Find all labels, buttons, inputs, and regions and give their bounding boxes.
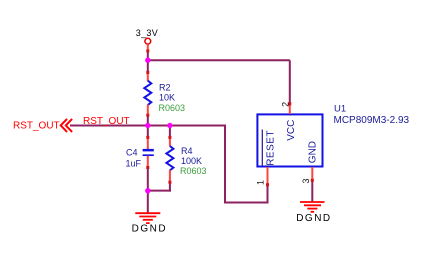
off-page connector RST_OUT (13, 119, 72, 132)
svg-text:DGND: DGND (296, 213, 331, 224)
ground symbol right DGND (300, 202, 325, 212)
resistor R2 (144, 71, 151, 117)
svg-text:3: 3 (301, 178, 311, 183)
svg-text:VCC: VCC (286, 120, 297, 141)
RESET overline (261, 130, 263, 166)
svg-text:C4: C4 (126, 148, 138, 158)
wire from power symbol down to R2 (147, 50, 149, 73)
node junction at ground (145, 188, 150, 193)
svg-text:R0603: R0603 (159, 103, 186, 113)
svg-text:DGND: DGND (132, 223, 167, 234)
op-amp U1 body (257, 114, 322, 166)
svg-text:U1: U1 (334, 104, 346, 115)
svg-text:R4: R4 (181, 146, 193, 156)
svg-text:GND: GND (308, 141, 319, 163)
wire RST_OUT horizontal (70, 125, 226, 127)
wire horizontal R4 bottom to junction (147, 190, 171, 192)
wire U1 pin 3 down to right DGND (311, 181, 313, 203)
wire vertical bend down at x=225 (224, 126, 226, 204)
wire vertical up to U1 pin 1 (267, 185, 269, 203)
svg-text:MCP809M3-2.93: MCP809M3-2.93 (334, 115, 410, 126)
svg-text:RST_OUT: RST_OUT (83, 116, 130, 127)
node junction at power rail (145, 58, 150, 63)
wire C4 bottom to ground junction (147, 167, 149, 191)
pin 3 stub (311, 167, 314, 182)
ground symbol left DGND (135, 213, 160, 223)
svg-text:R0603: R0603 (180, 166, 207, 176)
wire horizontal to U1 pin 1 (224, 202, 269, 204)
svg-text:1: 1 (255, 180, 265, 185)
wire junction to R4 top (169, 126, 171, 138)
svg-text:R2: R2 (159, 83, 171, 93)
svg-text:RST_OUT: RST_OUT (13, 121, 60, 132)
power symbol 3_3V (136, 28, 158, 52)
wire junction down to left DGND (147, 191, 149, 214)
wire junction to C4 top (147, 126, 149, 138)
wire vertical down to U1 pin 2 (289, 60, 291, 104)
svg-text:1uF: 1uF (126, 159, 142, 169)
svg-text:100K: 100K (181, 156, 202, 166)
wire R2 bottom to RST_OUT net (147, 115, 149, 126)
resistor R4 (166, 136, 173, 184)
pin 1 stub (266, 167, 269, 186)
capacitor C4 (143, 136, 154, 169)
svg-text:RESET: RESET (266, 130, 277, 166)
svg-text:2: 2 (280, 102, 290, 107)
wire horizontal top rail to U1 pin 2 (147, 59, 290, 61)
node junction RST_OUT / C4 (145, 123, 150, 128)
node junction RST_OUT / R4 (167, 123, 172, 128)
svg-text:3_3V: 3_3V (136, 28, 158, 38)
wire R4 bottom down (169, 182, 171, 191)
pin 2 stub (288, 102, 291, 114)
svg-text:10K: 10K (159, 93, 175, 103)
